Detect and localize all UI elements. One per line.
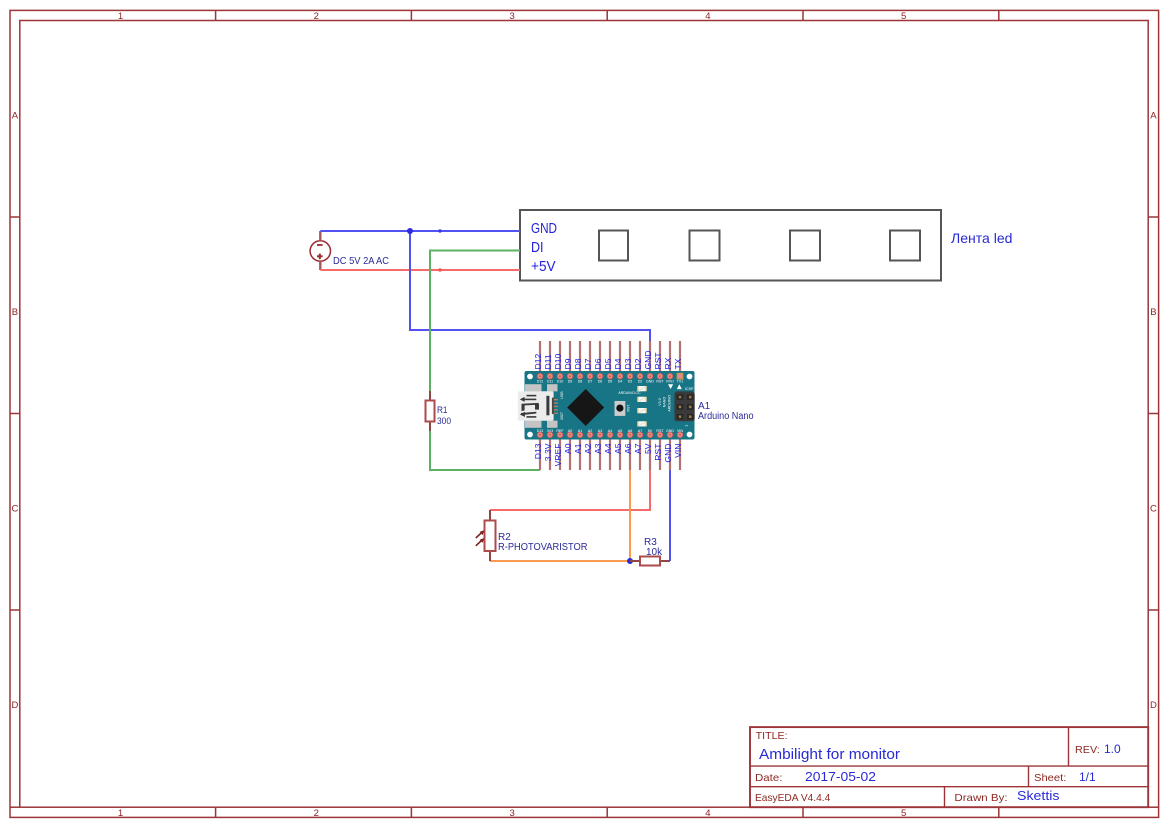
svg-text:D8: D8 (578, 380, 583, 384)
svg-text:EasyEDA V4.4.4: EasyEDA V4.4.4 (755, 792, 830, 804)
svg-text:GND: GND (643, 350, 653, 369)
arduino pin names top (533, 350, 683, 369)
svg-text:C: C (11, 504, 18, 515)
svg-text:USB: USB (560, 391, 564, 399)
arduino reset button (615, 401, 631, 416)
svg-text:RST: RST (656, 429, 664, 433)
svg-text:3.3V: 3.3V (543, 443, 553, 461)
svg-text:1.0: 1.0 (1104, 742, 1121, 756)
arduino MCU chip (567, 389, 604, 426)
power source DC 5V (310, 231, 330, 270)
svg-text:A2: A2 (583, 443, 593, 454)
svg-text:D11: D11 (547, 380, 553, 384)
arduino pin stubs bottom (540, 439, 680, 470)
wire green below R1 (430, 431, 540, 470)
svg-text:D5: D5 (603, 358, 613, 369)
R2 labels (498, 532, 588, 553)
svg-text:RST: RST (653, 352, 663, 370)
arduino ref labels (698, 401, 754, 422)
svg-text:A5: A5 (618, 429, 622, 433)
arduino SMD parts (637, 386, 647, 427)
svg-text:REV:: REV: (1075, 744, 1100, 756)
svg-text:300: 300 (437, 416, 451, 427)
svg-text:A0: A0 (563, 443, 573, 454)
svg-text:D4: D4 (618, 380, 623, 384)
svg-text:B: B (12, 307, 18, 318)
arduino board body (525, 371, 695, 440)
svg-text:4: 4 (705, 11, 710, 22)
svg-text:D3: D3 (628, 380, 633, 384)
svg-text:Arduino Nano: Arduino Nano (698, 411, 754, 422)
ICSP header (674, 391, 694, 421)
arduino pin names bottom (533, 443, 683, 467)
svg-text:Date:: Date: (755, 772, 782, 784)
svg-text:D11: D11 (543, 354, 553, 369)
svg-text:2: 2 (314, 808, 319, 819)
svg-text:A: A (12, 111, 19, 122)
svg-text:5V: 5V (643, 443, 653, 454)
frame column numbers top (118, 11, 906, 22)
frame row letters left (11, 111, 18, 712)
arduino silkscreen USB text (560, 391, 564, 420)
svg-text:+5V: +5V (531, 259, 556, 275)
svg-text:1/1: 1/1 (1079, 770, 1096, 784)
svg-text:DC 5V 2A AC: DC 5V 2A AC (333, 255, 389, 267)
svg-text:D4: D4 (613, 358, 623, 369)
frame row letters right (1150, 111, 1157, 712)
svg-text:5V: 5V (648, 429, 653, 433)
svg-text:A1: A1 (578, 429, 582, 433)
svg-text:C: C (1150, 504, 1157, 515)
resistor R2 photoresistor (476, 510, 496, 561)
arduino mini-USB connector (518, 384, 558, 428)
svg-text:TX: TX (673, 358, 683, 369)
LED strip J1 body (520, 210, 941, 281)
R3 labels (644, 537, 663, 558)
svg-text:B: B (1150, 307, 1156, 318)
wire GND blue top (320, 230, 520, 232)
svg-text:D10: D10 (553, 354, 563, 370)
svg-text:D9: D9 (563, 358, 573, 369)
svg-text:3: 3 (509, 11, 514, 22)
svg-text:D13: D13 (537, 429, 544, 433)
svg-text:Skettis: Skettis (1017, 788, 1060, 803)
LED strip pin names (531, 221, 557, 275)
title block values (759, 742, 1121, 803)
svg-text:A: A (1150, 111, 1157, 122)
svg-text:D5: D5 (608, 380, 613, 384)
svg-text:Ambilight for monitor: Ambilight for monitor (759, 747, 900, 763)
svg-text:3V3: 3V3 (547, 429, 553, 433)
svg-text:10k: 10k (646, 547, 663, 558)
svg-text:D13: D13 (533, 443, 543, 459)
wire +5V red (320, 269, 520, 271)
arduino silkscreen triangles (668, 384, 673, 389)
svg-text:A6: A6 (623, 443, 633, 454)
wire vertex blue (438, 229, 441, 232)
svg-text:D6: D6 (593, 358, 603, 369)
svg-text:5: 5 (901, 11, 906, 22)
wire blue GND down (669, 470, 671, 561)
svg-text:A7: A7 (638, 429, 642, 433)
svg-text:ICSP: ICSP (685, 387, 694, 391)
svg-text:RST: RST (626, 405, 630, 412)
svg-text:D2: D2 (633, 358, 643, 369)
svg-text:A1: A1 (573, 443, 583, 454)
svg-text:GND: GND (531, 221, 557, 237)
svg-text:DI: DI (531, 240, 544, 256)
wire red 5V to R2 (490, 470, 650, 510)
svg-text:TX1: TX1 (677, 380, 684, 384)
svg-text:1: 1 (118, 11, 123, 22)
svg-text:A6: A6 (628, 429, 632, 433)
svg-text:D6: D6 (598, 380, 603, 384)
svg-text:1: 1 (685, 425, 689, 427)
svg-text:D9: D9 (568, 380, 573, 384)
svg-text:D7: D7 (588, 380, 593, 384)
svg-text:VIN: VIN (673, 444, 683, 458)
junction dot R3 (627, 558, 633, 564)
svg-text:A4: A4 (608, 429, 612, 433)
svg-text:2007: 2007 (560, 412, 564, 420)
svg-text:D2: D2 (638, 380, 643, 384)
svg-text:D: D (1150, 700, 1157, 711)
svg-text:RX: RX (663, 357, 673, 369)
svg-text:VIN: VIN (677, 429, 683, 433)
svg-text:ARDUINO: ARDUINO (667, 395, 671, 412)
svg-text:ARDUINO.CC: ARDUINO.CC (618, 391, 641, 395)
svg-text:A0: A0 (568, 429, 572, 433)
svg-text:D7: D7 (583, 358, 593, 369)
svg-text:Drawn By:: Drawn By: (954, 792, 1007, 804)
wire orange R2 to junction (490, 560, 630, 562)
svg-text:Лента led: Лента led (951, 230, 1013, 246)
svg-text:GND: GND (663, 444, 673, 463)
svg-text:V3.0: V3.0 (658, 398, 662, 405)
svg-text:RST: RST (653, 443, 663, 461)
svg-text:D3: D3 (623, 358, 633, 369)
svg-text:A2: A2 (588, 429, 592, 433)
svg-text:NANO: NANO (663, 397, 667, 408)
svg-text:A5: A5 (613, 443, 623, 454)
wire DI green (430, 251, 520, 392)
svg-text:Sheet:: Sheet: (1034, 772, 1066, 784)
svg-text:2017-05-02: 2017-05-02 (805, 770, 876, 784)
svg-text:VREF: VREF (553, 444, 563, 467)
svg-text:4: 4 (705, 808, 710, 819)
svg-text:A3: A3 (593, 443, 603, 454)
svg-text:REF: REF (556, 429, 564, 433)
arduino silkscreen pin text (537, 380, 684, 433)
svg-text:A7: A7 (633, 443, 643, 454)
title block (750, 727, 1148, 807)
svg-text:RXD: RXD (666, 380, 674, 384)
resistor R3 (630, 557, 670, 566)
svg-text:GND: GND (646, 380, 654, 384)
wire orange A6 down (629, 470, 631, 561)
svg-text:3: 3 (509, 808, 514, 819)
svg-text:A3: A3 (598, 429, 602, 433)
svg-text:5: 5 (901, 808, 906, 819)
svg-text:A4: A4 (603, 443, 613, 454)
svg-text:D12: D12 (533, 354, 543, 370)
title block labels (755, 731, 1100, 804)
wire blue to arduino GND (410, 231, 650, 342)
svg-text:RST: RST (656, 380, 664, 384)
svg-text:2: 2 (314, 11, 319, 22)
R1 labels (437, 405, 451, 427)
arduino pin stubs top (540, 341, 680, 372)
svg-text:R1: R1 (437, 405, 448, 416)
svg-text:1: 1 (118, 808, 123, 819)
arduino nano v3 silkscreen (658, 395, 671, 412)
frame column numbers bottom (118, 808, 906, 819)
svg-text:TITLE:: TITLE: (756, 731, 788, 742)
svg-text:D12: D12 (537, 380, 544, 384)
junction dot (407, 228, 413, 234)
svg-text:D8: D8 (573, 358, 583, 369)
wire vertex red (438, 268, 441, 271)
svg-text:D10: D10 (557, 380, 564, 384)
resistor R1 (426, 391, 435, 431)
svg-text:R-PHOTOVARISTOR: R-PHOTOVARISTOR (498, 542, 588, 553)
arduino pads (537, 373, 683, 438)
svg-text:D: D (11, 700, 18, 711)
svg-text:GND: GND (666, 429, 674, 433)
